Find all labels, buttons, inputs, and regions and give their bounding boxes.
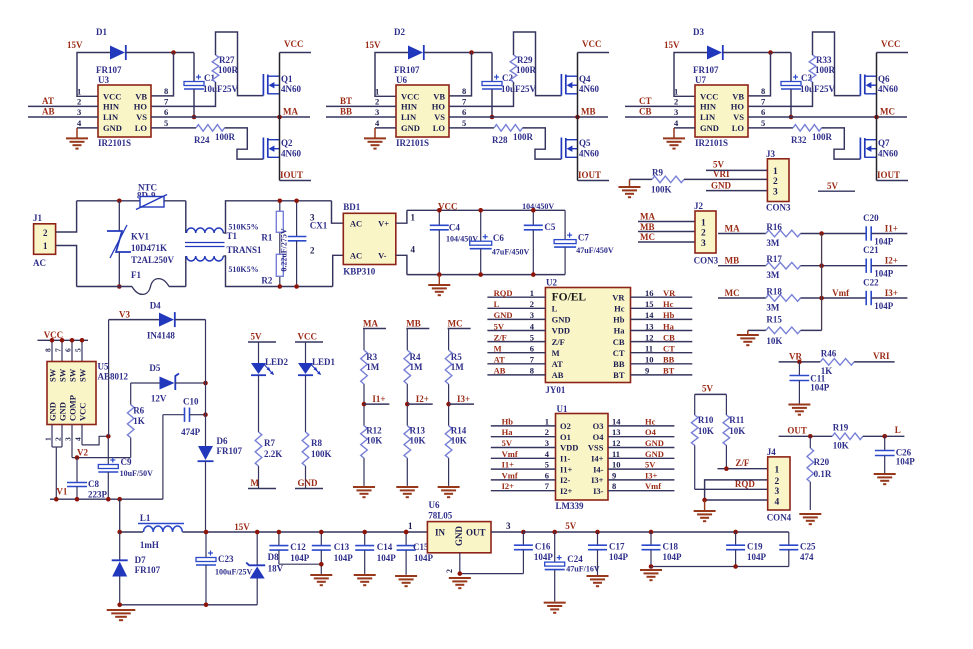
wire U1 pin 14 net Hc [608,425,674,427]
svg-text:CT: CT [663,344,675,354]
net MC wire to J2 [638,241,695,243]
svg-text:C9: C9 [121,457,132,467]
svg-text:FR107: FR107 [217,446,243,456]
capacitor C16 104P [521,530,526,535]
svg-text:FR107: FR107 [394,65,420,75]
wire U1 pin 9 net I3+ [608,479,674,481]
resistor R6 1K [130,438,132,458]
transistor Q7 4N60 [859,138,861,160]
svg-text:VB: VB [433,92,445,102]
svg-text:VCC: VCC [44,330,64,340]
transformer T1 TRANS1 [185,201,187,233]
svg-text:510K5%: 510K5% [228,265,258,274]
wire U2 pin 3 net GND [487,318,545,320]
svg-text:IR2101S: IR2101S [98,138,131,148]
svg-text:R7: R7 [264,438,275,448]
svg-text:10uF25V: 10uF25V [501,84,537,94]
wire U1 pin 10 net 5V [608,468,674,470]
svg-text:R17: R17 [766,254,782,264]
capacitor C4 104/450V [438,210,440,225]
capacitor C9 10uF/50V [107,436,109,464]
junction VS rail [575,115,580,120]
wire VB pin 8 [151,53,174,96]
wire J1 pin1 to bottom rail [56,246,77,287]
svg-text:SW: SW [78,368,88,382]
transistor Q1 4N60 [262,74,264,96]
svg-text:BB: BB [663,355,675,365]
junction [469,50,474,55]
wire VB pin 8 [748,53,771,96]
svg-text:R16: R16 [766,222,782,232]
svg-text:R27: R27 [219,55,235,65]
svg-text:100K: 100K [311,449,332,459]
svg-text:R18: R18 [766,287,782,297]
svg-text:10K: 10K [729,426,745,436]
capacitor C7 47uF/450V [564,210,566,239]
svg-text:VS: VS [733,112,744,122]
svg-text:15V: 15V [365,40,381,50]
resistor R9 100K [652,176,684,183]
wire C12 to C13 ground [279,563,321,565]
svg-text:10K: 10K [366,436,382,446]
svg-text:I2+: I2+ [885,256,898,266]
svg-text:VS: VS [136,112,147,122]
svg-text:I1-: I1- [560,454,571,464]
svg-text:L: L [895,425,901,435]
svg-text:L: L [494,299,500,309]
wire to BD1 pin3 [332,201,344,223]
resistor R10 10K [694,394,696,415]
svg-text:13: 13 [645,321,654,331]
svg-text:O2: O2 [560,421,571,431]
svg-text:GND: GND [298,478,319,488]
svg-text:VB: VB [135,92,147,102]
svg-text:2: 2 [674,97,678,107]
ground C14 [354,574,376,576]
svg-text:4: 4 [775,498,780,508]
svg-text:U3: U3 [98,75,109,85]
svg-text:J3: J3 [766,149,776,159]
wire U2 pin 13 net Ha [631,330,693,332]
svg-text:1M: 1M [366,362,380,372]
svg-text:1: 1 [44,437,53,441]
resistor R17 3M [766,262,801,269]
svg-text:VS: VS [434,112,445,122]
ground U6 [449,577,471,579]
svg-text:C6: C6 [493,233,504,243]
svg-text:MB: MB [725,256,740,266]
svg-text:D6: D6 [217,436,228,446]
svg-text:CB: CB [639,107,652,117]
resistor R3 1M [363,329,365,351]
svg-text:RQD: RQD [494,288,513,298]
svg-text:U6: U6 [396,75,407,85]
wire VCC- bottom rail [407,274,565,276]
svg-text:C10: C10 [183,397,199,407]
svg-text:13: 13 [612,427,621,437]
svg-text:100R: 100R [812,132,833,142]
svg-text:J1: J1 [33,213,43,223]
ground C24 [544,602,566,604]
junction [768,50,773,55]
wires U5 top pins [51,340,53,361]
svg-text:3M: 3M [766,238,780,248]
svg-text:V2: V2 [77,448,88,458]
svg-text:O4: O4 [593,432,605,442]
wire U2 pin 9 net BT [631,374,693,376]
svg-text:3: 3 [310,212,315,222]
resistor R7 2.2K [258,376,260,433]
svg-text:LIN: LIN [103,112,119,122]
wire VB pin 8 [449,53,472,96]
svg-text:MB: MB [581,107,596,117]
svg-text:OUT: OUT [466,528,486,538]
svg-text:I3+: I3+ [591,475,604,485]
svg-text:C12: C12 [290,542,306,552]
svg-text:FR107: FR107 [135,565,161,575]
svg-text:10K: 10K [833,441,849,451]
net M stub [258,466,260,489]
resistor R33 100R [809,55,816,82]
svg-text:C18: C18 [663,542,679,552]
svg-text:8: 8 [530,366,534,376]
ground GND pin [77,127,98,129]
svg-text:3: 3 [375,107,379,117]
capacitor C6 47uF/450V [480,210,482,241]
svg-text:CT: CT [613,348,625,358]
ground C13 [310,574,332,576]
resistor R13 10K [404,426,411,458]
capacitor C10 474P [162,415,164,500]
svg-text:1: 1 [530,288,534,298]
wire U2 pin 15 net Hc [631,307,693,309]
wire BD1 V+ pin1 [396,210,407,223]
svg-text:I2+: I2+ [560,486,573,496]
svg-text:10K: 10K [698,426,714,436]
connector J1 AC [34,224,56,255]
wire GND pins to V1 rail [52,446,62,448]
svg-text:R5: R5 [451,352,462,362]
svg-text:R1: R1 [261,233,272,243]
svg-text:9: 9 [612,470,616,480]
junction C bottom on VS [490,115,495,120]
svg-text:MA: MA [363,319,378,329]
svg-text:6: 6 [164,107,168,117]
svg-text:100R: 100R [513,132,534,142]
svg-text:I1+: I1+ [502,460,515,470]
svg-text:HIN: HIN [700,102,717,112]
svg-text:GND: GND [645,438,664,448]
svg-text:223P: 223P [88,490,108,500]
wire VS / node MA [151,116,310,118]
wire ground return rail [120,604,258,606]
svg-text:C20: C20 [863,213,879,223]
svg-text:100R: 100R [215,132,236,142]
svg-text:C16: C16 [535,542,551,552]
svg-text:AC: AC [350,219,362,229]
svg-text:V-: V- [378,251,387,261]
net MA wire to J2 [638,221,695,223]
svg-text:VRI: VRI [873,351,890,361]
svg-text:V+: V+ [378,219,389,229]
svg-text:I3+: I3+ [645,470,658,480]
svg-text:VR: VR [663,288,676,298]
wire U1 pin 13 net O4 [608,436,674,438]
svg-text:R19: R19 [833,423,849,433]
svg-text:R12: R12 [366,426,382,436]
resistor R29 100R [510,55,517,82]
wire U2 pin 1 net RQD [487,296,545,298]
wire R top loop to gate [813,32,861,96]
ground [406,458,408,486]
ground GND pin [375,127,396,129]
svg-text:C19: C19 [747,542,763,552]
svg-text:FO/EL: FO/EL [552,292,587,304]
svg-text:R9: R9 [652,168,663,178]
svg-text:AB8012: AB8012 [98,372,129,382]
svg-text:100R: 100R [815,65,836,75]
svg-text:GND: GND [103,123,122,133]
svg-text:I3+: I3+ [885,288,898,298]
wire V3 right column [205,320,207,446]
svg-text:14: 14 [645,310,654,320]
net VRI wire [854,361,895,363]
svg-text:2: 2 [375,97,379,107]
svg-text:F1: F1 [131,270,141,280]
capacitor C12 104P [278,532,280,546]
svg-text:3: 3 [64,437,73,441]
svg-text:8: 8 [164,86,168,96]
svg-text:D3: D3 [693,27,704,37]
LED LED1 [305,342,307,363]
svg-text:5: 5 [74,348,83,352]
wire HO to R [748,82,813,106]
junction L1 left [117,530,122,535]
wire VCC pin to V3 column [82,436,108,445]
resistor R19 10K [832,433,863,440]
net AB input wire [28,116,98,118]
wire caps ground tie [651,566,789,568]
svg-text:IR2101S: IR2101S [695,138,728,148]
svg-text:Z/F: Z/F [735,458,750,468]
svg-text:474: 474 [800,552,814,562]
svg-text:M: M [251,478,260,488]
svg-text:L1: L1 [140,513,151,523]
svg-text:VDD: VDD [552,326,570,336]
wire VS / node MB [449,116,608,118]
svg-text:Ha: Ha [663,321,675,331]
svg-text:7: 7 [54,348,63,352]
svg-text:AT: AT [552,359,564,369]
svg-text:1: 1 [43,241,48,251]
svg-text:T2AL250V: T2AL250V [131,255,175,265]
svg-text:Vmf: Vmf [502,449,518,459]
svg-text:Q1: Q1 [281,74,293,84]
transistor Q2 4N60 [262,138,264,160]
svg-text:104/450V: 104/450V [522,202,554,211]
capacitor C11 104P [798,362,800,376]
svg-text:5V: 5V [565,521,577,531]
svg-text:BB: BB [340,107,352,117]
svg-text:10: 10 [612,460,621,470]
svg-text:J2: J2 [694,201,704,211]
svg-text:U7: U7 [695,75,706,85]
net AT input wire [28,105,98,107]
wire D cathode to VB/C [723,52,791,54]
svg-text:COMP: COMP [68,395,78,421]
svg-text:Hc: Hc [645,416,656,426]
wire U1 pin 5 net I1+ [491,468,556,470]
wire LO to lower gate [523,128,562,159]
svg-text:Z/F: Z/F [494,332,507,342]
svg-text:C5: C5 [544,222,555,232]
svg-text:104P: 104P [810,383,830,393]
wire T1 to right loop top [223,201,331,233]
junction VS rail [277,115,282,120]
wire GND to J3 pin3 [706,190,767,192]
ground R20 [799,513,821,515]
svg-text:D5: D5 [149,363,160,373]
svg-text:I2-: I2- [560,475,571,485]
svg-text:AC: AC [33,258,46,268]
svg-text:C22: C22 [863,278,879,288]
ground C17 [587,575,609,577]
resistor R8 100K [305,376,307,433]
svg-text:MC: MC [640,232,655,242]
net RQD wire to J4 pin3 [694,445,696,489]
ground R15 [748,329,766,331]
svg-text:0.22uF/275V: 0.22uF/275V [280,228,289,272]
ground C18 tie [650,567,652,569]
svg-text:47uF/16V: 47uF/16V [566,565,600,574]
junction varistor bottom [117,284,122,289]
junction CX1 bottom [294,284,299,289]
wires U5 bottom pins [51,425,53,448]
svg-text:VCC: VCC [103,92,121,102]
svg-text:6: 6 [462,107,466,117]
svg-text:104P: 104P [290,553,310,563]
wire U2 pin 7 net AT [487,363,545,365]
svg-text:LIN: LIN [401,112,417,122]
svg-text:I1+: I1+ [372,394,385,404]
svg-text:AT: AT [42,96,54,106]
svg-text:LIN: LIN [700,112,716,122]
svg-text:D4: D4 [150,301,161,311]
svg-text:BB: BB [613,359,625,369]
resistor R5 1M [448,329,450,351]
diode D3 FR107 [707,46,722,60]
svg-text:U2: U2 [546,278,557,288]
svg-text:10uF/50V: 10uF/50V [120,469,154,478]
svg-text:1M: 1M [451,362,465,372]
svg-text:1M: 1M [410,362,424,372]
svg-text:47uF/450V: 47uF/450V [576,246,614,255]
svg-text:I1+: I1+ [885,224,898,234]
svg-text:C17: C17 [609,542,625,552]
wire U2 pin 4 net 5V [487,330,545,332]
svg-text:5: 5 [164,118,168,128]
IC U7 IR2101S [695,85,748,137]
wire D cathode to VB/C [126,52,194,54]
svg-text:M: M [494,344,502,354]
wire HO to R [449,82,514,106]
svg-text:CT: CT [639,96,652,106]
capacitor C26 104P [884,436,886,450]
svg-text:C14: C14 [377,542,393,552]
svg-text:1mH: 1mH [140,540,159,550]
wire OUT pin 3 [491,531,523,533]
junction D5-V3 column [203,381,208,386]
svg-text:4N60: 4N60 [878,84,898,94]
LED LED2 [258,342,260,363]
svg-text:5V: 5V [713,160,725,170]
diode D7 FR107 [119,532,121,560]
svg-text:C7: C7 [578,233,589,243]
svg-text:I3+: I3+ [457,394,470,404]
svg-text:HIN: HIN [103,102,120,112]
svg-text:2.2K: 2.2K [264,449,282,459]
capacitor C8 223P [76,458,78,483]
svg-text:3: 3 [77,107,81,117]
svg-text:1: 1 [411,213,416,223]
transistor Q4 4N60 [560,74,562,96]
svg-text:510K5%: 510K5% [228,223,258,232]
net 5V rail [523,531,788,533]
svg-text:9: 9 [645,366,649,376]
svg-text:1: 1 [375,87,379,97]
svg-text:4N60: 4N60 [579,149,599,159]
svg-text:MC: MC [725,288,740,298]
svg-text:1: 1 [545,416,549,426]
IC U3 IR2101S [98,85,151,137]
svg-text:AC: AC [350,251,362,261]
wire VRI to J3 pin2 [684,178,767,180]
net BB input wire [326,116,396,118]
net GND stub [305,466,307,489]
wire VS / node MC [748,116,907,118]
svg-text:VB: VB [732,92,744,102]
svg-text:AB: AB [494,366,506,376]
zener D5 12V [131,382,160,384]
wire U2 pin 16 net VR [631,296,693,298]
capacitor C17 104P [595,530,600,535]
svg-text:TRANS1: TRANS1 [227,245,263,255]
svg-text:2: 2 [530,299,534,309]
svg-text:5V: 5V [494,321,505,331]
svg-text:3: 3 [545,438,549,448]
svg-text:4N60: 4N60 [281,149,301,159]
ground GND pin [674,127,695,129]
svg-text:R32: R32 [791,135,807,145]
svg-text:R14: R14 [451,426,467,436]
wire bottom rail left [77,286,132,288]
svg-text:11: 11 [612,449,620,459]
svg-text:R33: R33 [816,55,832,65]
svg-text:2: 2 [775,477,780,487]
svg-text:104P: 104P [896,457,916,467]
wire C16 ground return [460,573,524,575]
capacitor C25 474 [788,532,790,545]
svg-text:VDD: VDD [560,443,578,453]
svg-text:SW: SW [68,368,78,382]
node I1+ [363,384,365,426]
wire LO to lower gate [225,128,264,159]
junction CX1 top [294,199,299,204]
svg-text:6: 6 [761,107,765,117]
wire drain rail [876,53,878,181]
capacitor C18 104P [649,530,654,535]
wire U1 pin 2 net Ha [491,436,556,438]
